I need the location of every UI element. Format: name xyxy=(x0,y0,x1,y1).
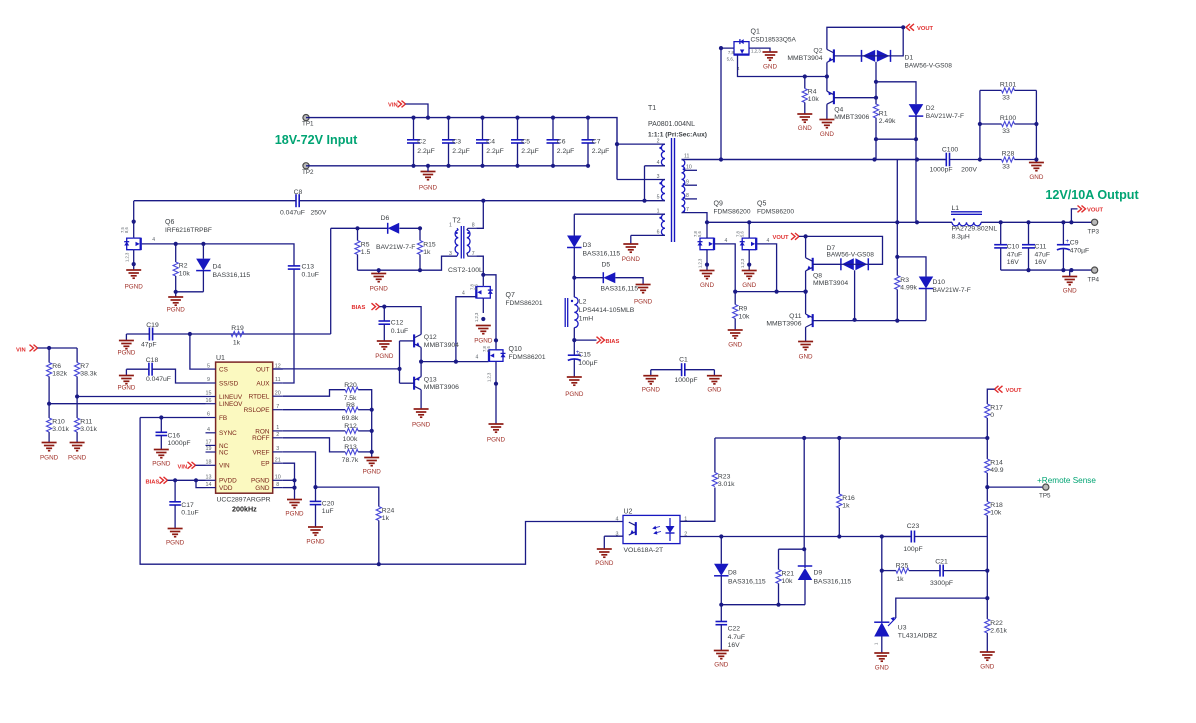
svg-text:PGND: PGND xyxy=(167,307,186,314)
svg-text:PGND: PGND xyxy=(117,350,135,357)
resistor R22 xyxy=(985,598,1008,652)
wire xyxy=(896,160,898,257)
wire xyxy=(682,159,947,161)
wire xyxy=(476,201,483,229)
ground GND Q9 xyxy=(700,271,715,290)
capacitor C20 xyxy=(310,487,335,527)
capacitor C1 xyxy=(674,357,697,384)
svg-text:R24: R24 xyxy=(382,508,395,515)
junction xyxy=(572,276,576,280)
power flag BIAS at U1 xyxy=(146,477,168,485)
wire xyxy=(854,270,856,320)
svg-text:1,2,3: 1,2,3 xyxy=(125,252,130,262)
junction xyxy=(837,436,841,440)
svg-text:3.01k: 3.01k xyxy=(80,426,97,433)
ground PGND T2 xyxy=(370,274,389,293)
svg-text:VOUT: VOUT xyxy=(1006,388,1023,394)
wire xyxy=(682,213,708,223)
wire xyxy=(738,55,827,77)
capacitor C6 xyxy=(547,118,575,166)
svg-text:3.01k: 3.01k xyxy=(718,481,735,488)
junction xyxy=(481,317,485,321)
wire xyxy=(283,430,345,432)
ground PGND C12 xyxy=(375,341,394,360)
junction xyxy=(880,569,884,573)
ground GND Q5 xyxy=(742,271,757,290)
junction xyxy=(515,164,519,168)
wire xyxy=(400,382,415,384)
svg-text:PGND: PGND xyxy=(251,478,270,485)
ground PGND C15 xyxy=(565,377,584,398)
svg-text:LPS4414-105MLB: LPS4414-105MLB xyxy=(579,307,635,314)
wire xyxy=(406,104,429,118)
junction xyxy=(914,137,918,141)
wire xyxy=(283,487,295,489)
wire xyxy=(834,97,876,99)
junction xyxy=(874,80,878,84)
junction xyxy=(747,220,751,224)
diode D10 BAV21W-7-F xyxy=(919,277,971,295)
wire xyxy=(273,368,400,370)
junction xyxy=(188,332,192,336)
svg-text:MMBT3906: MMBT3906 xyxy=(424,384,459,391)
wire xyxy=(805,327,807,341)
capacitor C11 xyxy=(1022,222,1050,270)
svg-text:TP4: TP4 xyxy=(1088,277,1100,284)
wire xyxy=(631,234,665,236)
resistor R4 xyxy=(802,77,819,115)
wire xyxy=(573,248,575,298)
svg-text:10k: 10k xyxy=(808,96,820,103)
svg-text:Q4: Q4 xyxy=(834,107,843,114)
svg-text:GND: GND xyxy=(798,125,812,132)
diode D6 BAV21W-7-F xyxy=(376,215,415,251)
wire xyxy=(133,250,135,270)
wire xyxy=(826,62,828,76)
wire xyxy=(371,452,373,458)
junction xyxy=(201,242,205,246)
svg-text:12V/10A Output: 12V/10A Output xyxy=(1045,188,1139,202)
capacitor C7 xyxy=(582,118,610,166)
resistor R25 xyxy=(896,563,909,583)
svg-text:1: 1 xyxy=(276,425,279,431)
resistor R5 xyxy=(355,228,371,270)
svg-text:MMBT3904: MMBT3904 xyxy=(813,280,848,287)
junction xyxy=(47,346,51,350)
svg-text:BAS316,115: BAS316,115 xyxy=(583,250,621,257)
junction xyxy=(615,142,619,146)
ground PGND U1 xyxy=(285,500,304,518)
junction xyxy=(1061,268,1065,272)
svg-text:GND: GND xyxy=(1029,174,1043,181)
wire xyxy=(986,438,988,459)
resistor R20 xyxy=(344,382,359,402)
svg-text:TP1: TP1 xyxy=(302,121,314,128)
svg-text:C13: C13 xyxy=(302,263,315,270)
svg-text:Q12: Q12 xyxy=(424,334,437,341)
svg-text:1k: 1k xyxy=(896,576,904,583)
svg-text:IRF6216TRPBF: IRF6216TRPBF xyxy=(165,227,212,234)
junction xyxy=(874,137,878,141)
junction xyxy=(853,318,857,322)
junction xyxy=(47,402,51,406)
svg-text:Q8: Q8 xyxy=(813,273,822,280)
transformer T2 CST2-100L xyxy=(448,218,483,275)
svg-text:5,6,: 5,6, xyxy=(727,57,734,62)
capacitor C21 xyxy=(930,559,953,587)
ground PGND Q13 xyxy=(412,409,431,429)
svg-text:R11: R11 xyxy=(80,419,92,426)
resistor R101 xyxy=(980,81,1037,101)
wire xyxy=(153,333,331,335)
junction xyxy=(411,164,415,168)
svg-text:C17: C17 xyxy=(181,502,194,509)
svg-text:C8: C8 xyxy=(294,189,303,196)
svg-text:GND: GND xyxy=(742,282,756,289)
svg-text:2.2µF: 2.2µF xyxy=(592,148,610,155)
svg-text:PGND: PGND xyxy=(634,299,653,306)
wire xyxy=(1069,270,1071,276)
wire xyxy=(126,333,149,335)
svg-text:U2: U2 xyxy=(624,509,633,516)
capacitor C12 xyxy=(379,307,409,341)
svg-text:20: 20 xyxy=(275,390,281,396)
svg-text:PGND: PGND xyxy=(595,560,614,567)
wire xyxy=(283,269,294,383)
wire xyxy=(943,570,987,572)
junction xyxy=(985,485,989,489)
svg-text:BAS316,115: BAS316,115 xyxy=(814,579,852,586)
svg-text:VIN: VIN xyxy=(178,464,188,470)
wire xyxy=(483,275,496,341)
capacitor C3 xyxy=(442,118,470,166)
svg-text:100k: 100k xyxy=(343,436,358,443)
transistor Q5 FDMS86200 xyxy=(735,201,794,269)
svg-text:4.99k: 4.99k xyxy=(900,285,917,292)
wire xyxy=(152,369,205,383)
test point TP5 xyxy=(1039,484,1051,500)
ground PGND Q7 xyxy=(474,326,493,345)
dual diode D1 BAW56-V-GS08 xyxy=(862,50,953,70)
wire xyxy=(979,90,981,159)
svg-text:10k: 10k xyxy=(179,271,191,278)
wire xyxy=(294,488,296,500)
wire xyxy=(283,390,345,397)
svg-text:PGND: PGND xyxy=(565,391,584,398)
svg-text:7,8: 7,8 xyxy=(735,231,740,237)
junction xyxy=(802,436,806,440)
svg-text:R5: R5 xyxy=(361,242,370,249)
wire xyxy=(685,169,697,171)
svg-text:BAV21W-7-F: BAV21W-7-F xyxy=(933,287,971,294)
wire xyxy=(987,486,1046,488)
svg-text:R21: R21 xyxy=(782,571,795,578)
svg-text:R13: R13 xyxy=(344,444,357,451)
svg-text:FDMS86201: FDMS86201 xyxy=(509,354,546,361)
svg-text:PGND: PGND xyxy=(306,539,325,546)
svg-text:EP: EP xyxy=(261,461,270,468)
wire xyxy=(826,104,828,119)
svg-text:BAW56-V-GS08: BAW56-V-GS08 xyxy=(827,252,875,259)
svg-text:Q9: Q9 xyxy=(714,201,723,208)
svg-text:D5: D5 xyxy=(602,261,611,268)
junction xyxy=(426,116,430,120)
svg-text:38.3k: 38.3k xyxy=(80,371,97,378)
svg-text:GND: GND xyxy=(714,662,728,669)
svg-text:BAS316,115: BAS316,115 xyxy=(601,286,639,293)
junction xyxy=(901,25,905,29)
resistor R3 xyxy=(895,257,918,321)
svg-text:Q7: Q7 xyxy=(506,292,515,299)
wire xyxy=(834,55,862,57)
svg-text:VOUT: VOUT xyxy=(917,26,934,32)
wire xyxy=(38,347,78,349)
junction xyxy=(978,157,982,161)
resistor R14 xyxy=(985,459,1004,487)
svg-text:VIN: VIN xyxy=(388,102,398,108)
wire xyxy=(909,570,940,572)
svg-text:100pF: 100pF xyxy=(903,546,922,553)
wire xyxy=(49,403,205,405)
svg-text:16V: 16V xyxy=(1035,259,1048,266)
svg-text:GND: GND xyxy=(799,354,813,361)
T1 secondary winding xyxy=(682,153,692,213)
power flag BIAS from L2 xyxy=(597,337,620,345)
ground PGND timing xyxy=(363,458,382,476)
svg-text:ROFF: ROFF xyxy=(252,435,269,442)
junction xyxy=(837,534,841,538)
svg-text:47uF: 47uF xyxy=(1035,251,1051,258)
svg-text:VOL618A-2T: VOL618A-2T xyxy=(624,547,664,554)
junction xyxy=(75,394,79,398)
junction xyxy=(418,268,422,272)
junction xyxy=(551,164,555,168)
wire xyxy=(573,214,575,235)
ground PGND C19 xyxy=(117,341,135,357)
svg-text:C15: C15 xyxy=(578,352,591,359)
svg-text:R20: R20 xyxy=(344,382,357,389)
svg-text:1000pF: 1000pF xyxy=(168,440,191,447)
svg-text:U1: U1 xyxy=(216,355,225,362)
wire xyxy=(456,297,476,362)
junction xyxy=(719,46,723,50)
wire xyxy=(168,479,206,481)
wire xyxy=(306,165,588,167)
junction xyxy=(481,199,485,203)
junction xyxy=(719,534,723,538)
svg-text:R8: R8 xyxy=(346,402,355,409)
test point TP4 xyxy=(1088,267,1100,284)
wire xyxy=(134,200,296,202)
wire xyxy=(721,604,805,606)
capacitor C9 (polarized) xyxy=(1057,222,1089,270)
svg-text:PVDD: PVDD xyxy=(219,478,237,485)
svg-text:VDD: VDD xyxy=(219,485,233,492)
wire xyxy=(617,143,665,145)
test point TP3 xyxy=(1088,219,1100,235)
transistor Q1 CSD18533Q5A xyxy=(727,29,797,72)
ground PGND D5 xyxy=(634,285,653,306)
junction xyxy=(804,234,808,238)
wire xyxy=(803,438,805,549)
svg-text:69.8k: 69.8k xyxy=(342,415,359,422)
svg-text:21: 21 xyxy=(275,457,281,463)
junction xyxy=(454,360,458,364)
wire xyxy=(495,361,497,424)
junction xyxy=(370,408,374,412)
wire xyxy=(981,221,1095,223)
wire xyxy=(283,438,345,452)
svg-text:15: 15 xyxy=(206,391,212,397)
wire xyxy=(299,200,644,202)
inductor L1 PA2729.802NL xyxy=(951,205,997,240)
svg-text:GND: GND xyxy=(875,665,889,672)
svg-text:D4: D4 xyxy=(213,264,222,271)
capacitor C5 xyxy=(511,118,539,166)
svg-text:C3: C3 xyxy=(452,139,461,146)
svg-text:4: 4 xyxy=(462,290,465,296)
svg-text:R100: R100 xyxy=(1000,115,1016,122)
transistor Q13 MMBT3906 xyxy=(414,377,459,392)
wire xyxy=(615,278,643,285)
svg-text:C7: C7 xyxy=(592,139,601,146)
capacitor C4 xyxy=(476,118,504,166)
junction xyxy=(642,199,646,203)
resistor R100 xyxy=(980,115,1037,135)
wire xyxy=(421,361,489,363)
shunt regulator U3 TL431AIDBZ xyxy=(874,617,938,645)
junction xyxy=(494,382,498,386)
wire xyxy=(715,437,987,439)
svg-text:2.49k: 2.49k xyxy=(879,118,896,125)
svg-text:4: 4 xyxy=(207,427,210,433)
junction xyxy=(446,164,450,168)
transformer T1 label xyxy=(648,105,707,139)
wire xyxy=(876,116,916,139)
wire xyxy=(749,48,770,52)
ground PGND R10 xyxy=(40,443,59,462)
ground PGND R2/D4 xyxy=(167,297,186,314)
junction xyxy=(132,262,136,266)
svg-text:U3: U3 xyxy=(898,625,907,632)
junction xyxy=(572,338,576,342)
inductor L2 LPS4414-105MLB xyxy=(565,297,635,328)
wire xyxy=(685,198,697,200)
resistor R15 xyxy=(417,228,435,270)
wire xyxy=(196,480,206,487)
capacitor C15 (polarized) xyxy=(568,349,598,377)
svg-text:VREF: VREF xyxy=(252,449,269,456)
power flag VIN divider xyxy=(16,345,38,354)
wire xyxy=(617,179,665,181)
wire xyxy=(644,166,646,201)
transistor Q10 FDMS86201 xyxy=(476,346,546,382)
svg-text:PGND: PGND xyxy=(166,540,185,547)
junction xyxy=(159,415,163,419)
junction xyxy=(1069,268,1073,272)
wire xyxy=(707,221,952,223)
ground GND R4 xyxy=(797,114,812,132)
wire xyxy=(987,389,994,404)
wire xyxy=(950,159,980,161)
svg-text:R101: R101 xyxy=(1000,81,1016,88)
wire xyxy=(645,200,666,202)
wire xyxy=(1071,209,1077,222)
wire xyxy=(915,536,988,538)
svg-text:BIAS: BIAS xyxy=(146,479,160,485)
junction xyxy=(377,562,381,566)
svg-text:R28: R28 xyxy=(1002,150,1015,157)
junction xyxy=(355,226,359,230)
wire xyxy=(813,320,926,322)
wire xyxy=(748,222,750,238)
svg-text:18: 18 xyxy=(206,460,212,466)
junction xyxy=(174,242,178,246)
svg-text:C2: C2 xyxy=(417,139,426,146)
junction xyxy=(705,220,709,224)
ground PGND T1 pin6 xyxy=(622,244,641,263)
ground GND C1 xyxy=(707,376,722,394)
capacitor C8 xyxy=(280,189,327,217)
resistor R6 xyxy=(47,348,68,404)
wire xyxy=(1001,269,1095,271)
resistor R18 xyxy=(985,487,1003,598)
svg-text:33: 33 xyxy=(1002,164,1010,171)
junction xyxy=(426,164,430,168)
junction xyxy=(999,220,1003,224)
wire xyxy=(283,452,316,487)
wire xyxy=(125,369,127,375)
svg-text:0: 0 xyxy=(990,412,994,419)
U1 pins xyxy=(206,363,283,492)
wire xyxy=(574,213,665,215)
svg-text:CS: CS xyxy=(219,367,228,374)
svg-text:D9: D9 xyxy=(814,570,823,577)
svg-text:PGND: PGND xyxy=(375,353,394,360)
ground PGND C1 xyxy=(642,376,661,394)
svg-text:R12: R12 xyxy=(344,423,357,430)
svg-text:D2: D2 xyxy=(926,105,935,112)
svg-text:8: 8 xyxy=(472,223,475,229)
svg-text:PGND: PGND xyxy=(363,469,382,476)
svg-text:R14: R14 xyxy=(990,460,1003,467)
ground GND output xyxy=(1062,277,1077,295)
svg-text:FDMS86201: FDMS86201 xyxy=(506,300,543,307)
svg-text:L2: L2 xyxy=(579,299,587,306)
svg-text:1mH: 1mH xyxy=(579,316,593,323)
svg-text:PGND: PGND xyxy=(370,286,389,293)
wire xyxy=(574,339,596,341)
svg-text:C21: C21 xyxy=(935,559,948,566)
svg-text:TP3: TP3 xyxy=(1088,229,1100,236)
svg-text:R18: R18 xyxy=(990,502,1003,509)
svg-text:Q1: Q1 xyxy=(751,29,760,36)
wire xyxy=(196,464,206,466)
wire xyxy=(925,289,927,321)
svg-text:7,8: 7,8 xyxy=(470,284,475,290)
junction xyxy=(1026,268,1030,272)
svg-text:CSD18533Q5A: CSD18533Q5A xyxy=(751,37,797,44)
svg-text:+Remote Sense: +Remote Sense xyxy=(1037,476,1096,485)
svg-text:0.047uF: 0.047uF xyxy=(280,210,305,217)
svg-text:BAW56-V-GS08: BAW56-V-GS08 xyxy=(905,63,953,70)
capacitor C100 xyxy=(929,147,977,174)
wire xyxy=(799,236,883,264)
svg-text:TL431AIDBZ: TL431AIDBZ xyxy=(898,632,937,639)
svg-text:4: 4 xyxy=(767,238,770,244)
ground GND Q4 xyxy=(819,120,834,139)
dual diode D7 BAW56-V-GS08 xyxy=(827,245,875,270)
